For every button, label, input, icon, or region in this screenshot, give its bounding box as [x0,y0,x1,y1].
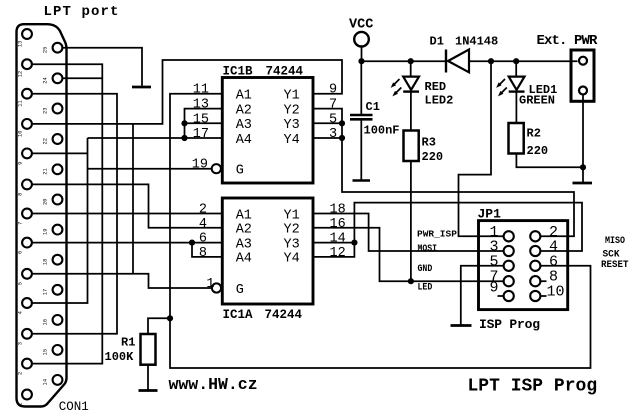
wire pin8 to IC1A A2 [32,184,222,227]
JP1 pin 1 circle [504,231,514,241]
svg-text:1: 1 [206,277,214,292]
svg-text:G: G [236,283,244,298]
JP1 pin 9 circle [504,291,514,301]
CON1 pin 16 [53,315,63,325]
LED1 stem top [515,61,517,76]
wire IC1A A4 bracket [192,243,222,257]
svg-text:LED2: LED2 [425,93,454,107]
svg-text:3: 3 [329,127,337,142]
svg-text:11: 11 [193,83,209,98]
ground bar (ExtPWR) [573,182,593,185]
LED2 stem bottom / R3 top [410,92,412,131]
resistor R3 [404,131,419,162]
JP1 pin 4 circle [530,246,540,256]
svg-text:IC1A: IC1A [223,308,254,322]
wire IC1B G pin19 [88,168,212,170]
svg-text:8: 8 [199,246,207,261]
wire IC1A Y2 pin16 to LED [313,228,504,281]
Ext PWR top circle [579,57,587,65]
CON1 pin 3 [22,329,32,339]
svg-text:A1: A1 [236,89,252,104]
wire IC1B Y3 pin5 [313,122,342,124]
diode D1 triangle [448,50,469,73]
svg-text:7: 7 [329,98,337,113]
svg-text:4: 4 [18,311,24,314]
JP1 pin 5 circle [504,261,514,271]
svg-text:R3: R3 [422,136,436,150]
svg-text:JP1: JP1 [478,207,502,222]
svg-text:5: 5 [329,112,337,127]
svg-text:14: 14 [43,379,49,385]
svg-text:LPT ISP Prog: LPT ISP Prog [468,377,598,397]
wire IC1B A2 pin13 bracket [185,109,223,138]
CON1 pin 6 [22,238,32,248]
wire R1 top [148,318,170,334]
wire pin24 [63,77,103,79]
svg-text:PWR_ISP: PWR_ISP [417,229,457,240]
svg-text:A4: A4 [236,133,252,148]
LED2 triangle [403,77,419,90]
capacitor C1 plates [350,114,373,117]
svg-text:23: 23 [43,107,49,113]
svg-text:R1: R1 [121,336,135,350]
junction dot R1/RESET [167,315,173,321]
wire VCC rail [362,47,447,61]
wire IC1A Y3 pin14 [313,242,354,244]
svg-text:17: 17 [43,289,49,295]
VCC circle [354,32,369,47]
svg-text:20: 20 [43,198,49,204]
ground bar (JP1) [451,324,472,327]
LED2 bar [403,90,419,92]
LED1 light arrow 2 [500,88,507,95]
CON1 pin 25 [53,43,63,53]
wire ExtPWR bottom to ground [582,95,584,183]
svg-text:2: 2 [18,372,24,375]
wire IC1B A4 pin17 [88,137,223,139]
svg-text:GND: GND [418,264,433,275]
junction dot VCC [358,58,364,64]
wire rail through D1 [469,60,578,62]
junction dot Y4 [339,135,345,141]
svg-text:CON1: CON1 [59,400,89,412]
capacitor C1 stem top [360,61,362,114]
svg-text:LED: LED [418,283,433,294]
CON1 pin 22 [53,134,63,144]
svg-text:2: 2 [199,203,207,218]
svg-text:Y3: Y3 [284,118,300,133]
JP1 pin 6 circle [530,261,540,271]
LED1 bar [509,90,525,92]
wire IC1A Y1 pin18 to MOSI [313,214,504,252]
svg-text:14: 14 [330,232,346,247]
svg-text:9: 9 [489,280,498,297]
wire R2 bottom to ExtPWR gnd [516,154,583,168]
svg-text:Y3: Y3 [284,237,300,252]
junction dot LED2 [408,58,414,64]
svg-text:1: 1 [18,403,24,406]
wire pin25 to ground [63,48,142,86]
svg-text:GREEN: GREEN [519,93,555,107]
CON1 pin 24 [53,73,63,83]
svg-text:13: 13 [193,98,209,113]
JP1 pin 3 circle [504,246,514,256]
svg-text:Y1: Y1 [284,208,300,223]
svg-text:VCC: VCC [349,18,373,33]
CON1 pin 12 [22,59,32,69]
resistor R1 [141,334,156,365]
svg-text:19: 19 [192,158,208,173]
LED2 light arrow 1 [393,79,400,86]
IC1B box 74244 [222,78,313,184]
svg-text:1N4148: 1N4148 [455,34,498,48]
svg-text:12: 12 [18,71,24,77]
CON1 pin 4 [22,298,32,308]
JP1 pin 7 circle [504,276,514,286]
CON1 pin 1 [22,390,32,400]
CON1 pin 5 [22,269,32,279]
wire IC1B A1 pin11 / RESET net vertical [170,94,591,368]
connector CON1 DB25 outline [17,24,67,406]
junction dot R3/LED [408,278,414,284]
svg-text:3: 3 [18,342,24,345]
svg-text:6: 6 [199,232,207,247]
CON1 pin 21 [53,164,63,174]
junction dot IC1B A3 [181,120,187,126]
junction dot IC1A A3 [189,240,195,246]
wire pin10 to loop [32,60,342,124]
svg-text:12: 12 [330,246,346,261]
IC1B G bubble [212,164,221,173]
svg-text:ISP Prog: ISP Prog [479,317,540,332]
rotated pin number 13 [18,41,49,406]
svg-text:D1: D1 [430,34,444,48]
junction dot IC1A Y3 [351,240,357,246]
wire net 13/15/17/G vertical V1 [32,138,87,303]
svg-text:A3: A3 [236,237,252,252]
svg-text:17: 17 [193,127,209,142]
wire PWR_ISP zigzag [459,61,504,236]
wire R1 bottom [147,365,149,390]
CON1 pin 23 [53,104,63,114]
CON1 pin 17 [53,285,63,295]
svg-text:LPT port: LPT port [44,4,120,20]
svg-text:18: 18 [43,259,49,265]
svg-text:74244: 74244 [266,65,304,79]
svg-text:RED: RED [425,80,447,94]
CON1 pin 18 [53,255,63,265]
svg-text:22: 22 [43,138,49,144]
CON1 pin 2 [22,359,32,369]
svg-text:8: 8 [18,193,24,196]
svg-text:100K: 100K [105,350,135,364]
svg-text:7: 7 [18,222,24,225]
JP1 pin 10 circle [530,291,540,301]
svg-text:9: 9 [18,162,24,165]
svg-text:A2: A2 [236,103,252,118]
LED1 stem bottom / R2 top [515,92,517,123]
junction dot IC1B A4 [181,135,187,141]
svg-text:A2: A2 [236,223,252,238]
diode D1 1N4148 bar [445,50,447,73]
svg-text:Y1: Y1 [284,89,300,104]
svg-text:4: 4 [199,217,207,232]
junction dot D1 right / PWR_ISP [488,58,494,64]
svg-text:220: 220 [422,150,444,164]
resistor R2 [509,123,524,154]
wire pin6 to IC1A A3 [32,242,222,244]
CON1 pin 8 [22,180,32,190]
svg-text:220: 220 [527,144,549,158]
Ext PWR bottom circle [579,87,587,95]
svg-text:21: 21 [43,168,49,174]
JP1 pin 10 stub [540,295,547,297]
svg-text:18: 18 [330,203,346,218]
svg-text:11: 11 [18,100,24,106]
svg-text:C1: C1 [366,100,380,114]
CON1 pin 15 [53,345,63,355]
junction dot Y3 [339,120,345,126]
svg-text:RESET: RESET [601,259,629,271]
ground bar (R1) [139,389,158,392]
wire pin5 to IC1A G [32,274,211,288]
wire pin7 to IC1A A1 [32,213,222,215]
wire R3 bottom to LED line [410,161,412,281]
svg-text:A3: A3 [236,118,252,133]
wire IC1A Y4 pin12 to SCK rail [313,203,582,257]
LED1 light arrow 1 [498,79,505,86]
wire JP1 GND pin5 to ground [461,266,504,325]
svg-text:6: 6 [18,251,24,254]
wire IC1B Y4 pin3 [313,137,342,139]
svg-text:25: 25 [43,47,49,53]
junction dot ExtPWR gnd [580,164,586,170]
wire pin12 [32,64,102,363]
svg-text:10: 10 [18,130,24,136]
CON1 pin 20 [53,195,63,205]
svg-text:16: 16 [43,319,49,325]
wire V4 vertical [132,124,134,274]
IC1A G bubble [212,283,221,292]
JP1 pin 9 stub [498,295,505,297]
Ext PWR connector box [571,50,594,101]
svg-text:19: 19 [43,229,49,235]
svg-text:13: 13 [18,41,24,47]
svg-text:100nF: 100nF [364,124,400,138]
svg-text:R2: R2 [527,126,541,140]
svg-text:Ext. PWR: Ext. PWR [537,33,599,49]
svg-text:16: 16 [330,217,346,232]
CON1 pin 10 [22,119,32,129]
JP1 pin 8 stub [540,280,547,282]
capacitor C1 stem bottom [360,121,362,180]
CON1 pin 11 [22,89,32,99]
wire pin9 [32,152,87,154]
svg-text:Y4: Y4 [284,252,300,267]
svg-text:MISO: MISO [605,235,625,247]
CON1 pin 14 [53,375,63,385]
CON1 pin 19 [53,225,63,235]
wire IC1B A3 pin15 [185,122,223,124]
svg-text:Y2: Y2 [284,223,300,238]
svg-text:Y2: Y2 [284,103,300,118]
svg-text:24: 24 [43,77,49,83]
LED1 triangle [509,77,525,90]
svg-text:MOSI: MOSI [418,244,438,255]
svg-text:A4: A4 [236,252,252,267]
svg-text:15: 15 [193,112,209,127]
JP1 pin 8 circle [530,276,540,286]
ground bar (pin25) [132,86,151,89]
wire pin11 [32,94,117,334]
svg-text:9: 9 [329,83,337,98]
CON1 pin 9 [22,149,32,159]
svg-text:A1: A1 [236,208,252,223]
svg-text:15: 15 [43,349,49,355]
svg-text:5: 5 [18,282,24,285]
wire IC1B Y2 pin7 [313,109,574,237]
ground bar (C1) [353,179,371,182]
svg-text:10: 10 [547,283,565,300]
svg-text:Y4: Y4 [284,133,300,148]
svg-text:www.HW.cz: www.HW.cz [169,375,258,394]
svg-text:IC1B: IC1B [223,65,254,79]
svg-text:74244: 74244 [265,308,303,322]
LED2 light arrow 2 [394,88,401,95]
JP1 pin 2 circle [530,231,540,241]
IC1A box 74244 [222,198,313,304]
junction dot LED1 [513,58,519,64]
LED2 stem top [410,61,412,76]
CON1 pin 7 [22,209,32,219]
CON1 pin 13 [22,29,32,39]
JP1 box [479,221,568,310]
svg-text:G: G [236,164,244,179]
